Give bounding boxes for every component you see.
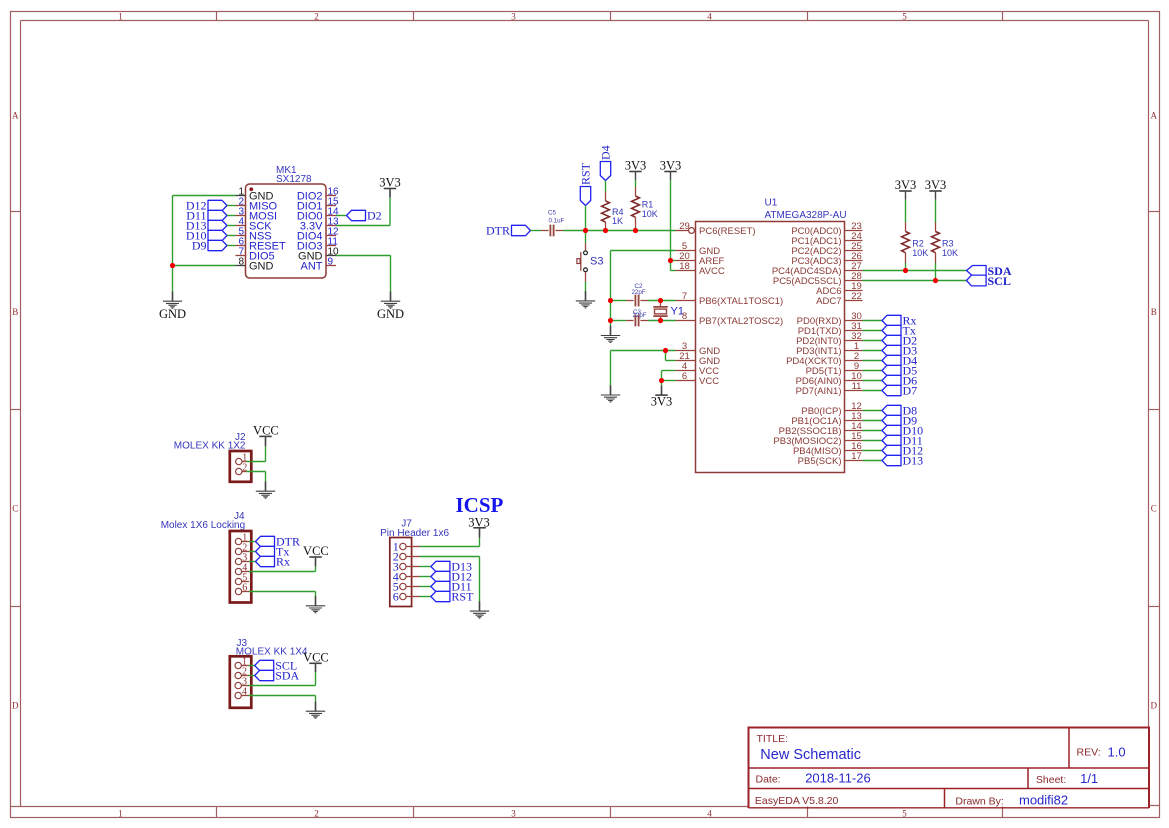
svg-text:3V3: 3V3 bbox=[468, 515, 490, 529]
svg-text:SCL: SCL bbox=[988, 274, 1011, 288]
svg-text:TITLE:: TITLE: bbox=[757, 733, 789, 745]
svg-text:11: 11 bbox=[852, 381, 862, 392]
svg-text:3V3: 3V3 bbox=[625, 159, 647, 173]
svg-text:EasyEDA V5.8.20: EasyEDA V5.8.20 bbox=[755, 795, 839, 807]
svg-text:ICSP: ICSP bbox=[456, 493, 504, 517]
svg-text:B: B bbox=[1151, 307, 1157, 317]
svg-text:A: A bbox=[1150, 111, 1157, 121]
svg-text:3V3: 3V3 bbox=[895, 178, 917, 192]
svg-text:1: 1 bbox=[118, 808, 123, 818]
svg-text:R1: R1 bbox=[642, 199, 654, 209]
svg-text:29: 29 bbox=[679, 221, 690, 232]
svg-text:18: 18 bbox=[679, 261, 690, 272]
svg-text:PB7(XTAL2TOSC2): PB7(XTAL2TOSC2) bbox=[699, 316, 783, 327]
svg-text:Rx: Rx bbox=[276, 555, 290, 569]
svg-text:8: 8 bbox=[238, 256, 244, 267]
svg-text:PB6(XTAL1TOSC1): PB6(XTAL1TOSC1) bbox=[699, 296, 783, 307]
svg-text:22: 22 bbox=[851, 291, 862, 302]
svg-text:4: 4 bbox=[707, 12, 712, 22]
svg-text:5: 5 bbox=[902, 808, 907, 818]
svg-text:C: C bbox=[12, 504, 18, 514]
svg-text:PB5(SCK): PB5(SCK) bbox=[798, 456, 842, 467]
svg-text:D9: D9 bbox=[192, 239, 207, 253]
svg-text:D: D bbox=[1150, 701, 1157, 711]
svg-text:GND: GND bbox=[159, 307, 186, 321]
svg-text:C: C bbox=[1151, 504, 1157, 514]
svg-text:Molex 1X6 Locking: Molex 1X6 Locking bbox=[161, 520, 246, 531]
svg-text:3V3: 3V3 bbox=[660, 159, 682, 173]
svg-text:3V3: 3V3 bbox=[651, 394, 673, 408]
svg-text:8: 8 bbox=[682, 311, 687, 322]
svg-text:9: 9 bbox=[328, 256, 334, 267]
svg-text:SDA: SDA bbox=[275, 669, 299, 683]
svg-text:Date:: Date: bbox=[756, 774, 781, 786]
svg-text:DTR: DTR bbox=[486, 224, 510, 238]
svg-text:GND: GND bbox=[377, 307, 404, 321]
svg-text:4: 4 bbox=[242, 687, 247, 698]
svg-text:ANT: ANT bbox=[301, 261, 323, 273]
svg-text:2: 2 bbox=[314, 808, 319, 818]
svg-text:22pF: 22pF bbox=[632, 312, 646, 319]
svg-text:1: 1 bbox=[118, 12, 123, 22]
svg-text:1K: 1K bbox=[612, 216, 623, 226]
svg-text:ATMEGA328P-AU: ATMEGA328P-AU bbox=[765, 210, 847, 221]
svg-text:VCC: VCC bbox=[699, 376, 719, 387]
svg-text:2: 2 bbox=[314, 12, 319, 22]
svg-text:Drawn By:: Drawn By: bbox=[955, 796, 1003, 808]
svg-text:10K: 10K bbox=[912, 248, 928, 258]
svg-text:RST: RST bbox=[451, 590, 474, 604]
svg-text:22pF: 22pF bbox=[631, 289, 645, 296]
svg-text:D: D bbox=[12, 701, 19, 711]
svg-text:3: 3 bbox=[511, 808, 516, 818]
svg-text:C5: C5 bbox=[548, 210, 556, 217]
svg-text:1.0: 1.0 bbox=[1108, 745, 1126, 760]
svg-text:New Schematic: New Schematic bbox=[760, 747, 861, 763]
svg-text:5: 5 bbox=[902, 12, 907, 22]
svg-text:3V3: 3V3 bbox=[379, 176, 401, 190]
svg-text:4: 4 bbox=[707, 808, 712, 818]
svg-text:10K: 10K bbox=[642, 209, 658, 219]
svg-text:D7: D7 bbox=[903, 384, 918, 398]
svg-text:RST: RST bbox=[579, 162, 593, 185]
svg-text:A: A bbox=[12, 111, 19, 121]
svg-text:REV:: REV: bbox=[1077, 747, 1101, 759]
svg-text:6: 6 bbox=[393, 590, 399, 604]
svg-text:7: 7 bbox=[682, 291, 687, 302]
svg-text:6: 6 bbox=[242, 583, 247, 594]
svg-text:D13: D13 bbox=[903, 454, 924, 468]
svg-text:PC6(RESET): PC6(RESET) bbox=[699, 226, 755, 237]
svg-text:Sheet:: Sheet: bbox=[1036, 774, 1066, 786]
svg-text:VCC: VCC bbox=[303, 544, 329, 558]
svg-text:ADC7: ADC7 bbox=[816, 296, 841, 307]
svg-text:VCC: VCC bbox=[253, 423, 279, 437]
svg-text:10K: 10K bbox=[942, 248, 958, 258]
svg-text:GND: GND bbox=[249, 261, 274, 273]
svg-text:3: 3 bbox=[511, 12, 516, 22]
svg-text:AVCC: AVCC bbox=[699, 266, 725, 277]
svg-text:2018-11-26: 2018-11-26 bbox=[805, 771, 871, 786]
svg-text:3V3: 3V3 bbox=[925, 178, 947, 192]
svg-text:1/1: 1/1 bbox=[1080, 771, 1098, 786]
svg-text:B: B bbox=[12, 307, 18, 317]
svg-text:0.1uF: 0.1uF bbox=[549, 218, 565, 225]
svg-text:D4: D4 bbox=[599, 145, 613, 160]
svg-text:modifi82: modifi82 bbox=[1019, 793, 1068, 808]
svg-text:U1: U1 bbox=[765, 198, 778, 209]
svg-text:6: 6 bbox=[682, 371, 687, 382]
svg-text:PD7(AIN1): PD7(AIN1) bbox=[796, 386, 842, 397]
svg-text:D2: D2 bbox=[367, 209, 382, 223]
svg-text:17: 17 bbox=[851, 451, 862, 462]
svg-text:VCC: VCC bbox=[303, 650, 329, 664]
svg-text:S3: S3 bbox=[590, 256, 603, 268]
